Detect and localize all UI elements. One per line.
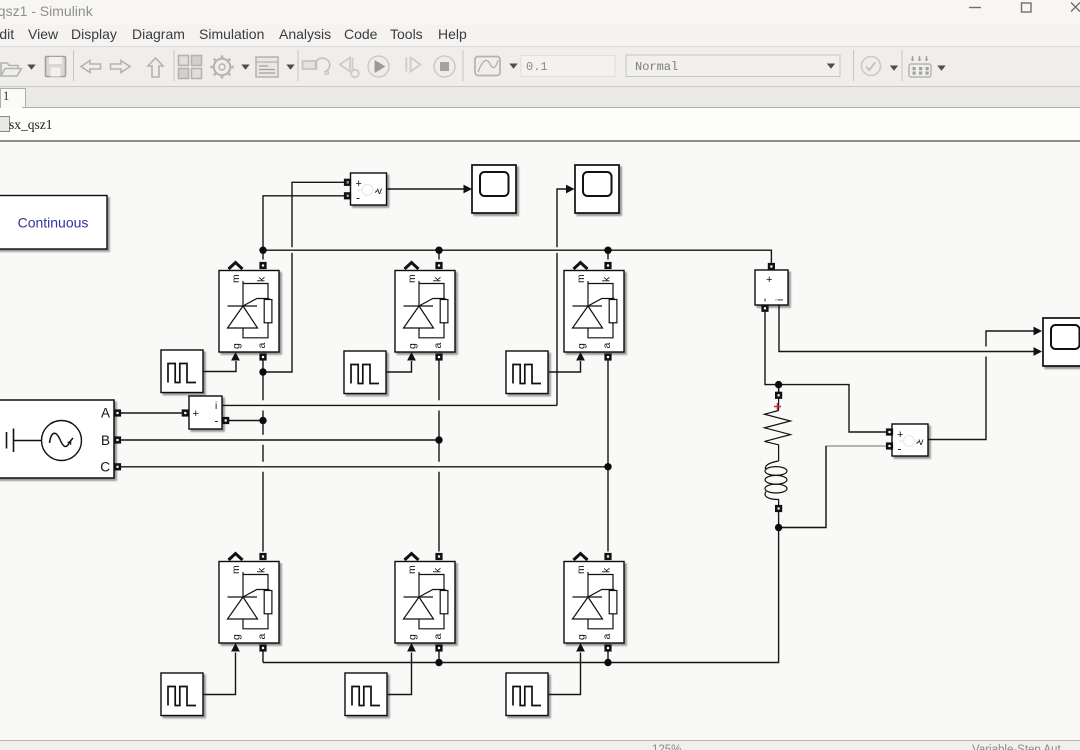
thyristor T1	[219, 262, 279, 361]
wire: phase C	[121, 466, 608, 468]
junction node DC+ bus / leg3 k	[604, 247, 611, 254]
wire: P3 to T3 gate	[549, 361, 581, 372]
wire: leg 1 (phase A to thyristors)	[262, 254, 264, 260]
wire: Vak measurement + lead	[267, 182, 348, 372]
junction node phase A / leg1	[259, 417, 266, 424]
title bar	[0, 0, 1080, 25]
series RLC branch (R + L load)	[765, 388, 791, 505]
junction node load top	[775, 381, 782, 388]
wire: phase A source to current measurement	[121, 412, 182, 414]
svg-text:-: -	[757, 298, 771, 302]
pulse generator P3	[506, 351, 548, 394]
svg-text:A: A	[101, 406, 110, 421]
wire: phase A current signal to scope	[222, 404, 557, 406]
window controls	[955, 0, 1080, 25]
wire: P4 to T4 gate	[203, 653, 236, 695]
wire: current measurement - to leg 1	[229, 420, 263, 422]
wire: Vak measurement - lead to top bus	[263, 196, 348, 250]
thyristor T4	[219, 553, 279, 652]
svg-text:+: +	[193, 408, 199, 420]
voltage measurement block Vd	[886, 424, 928, 456]
wire: P6 to T6 gate	[548, 653, 581, 695]
wire: Vd - to RLC bottom node	[782, 446, 886, 528]
thyristor T3	[564, 262, 624, 361]
wire: P2 to T2 gate	[386, 361, 412, 372]
wire: phase B	[121, 439, 439, 441]
current measurement block (phase A)	[182, 396, 230, 429]
pulse generator P5	[345, 673, 387, 716]
powergui block (Continuous)	[0, 196, 107, 250]
toolbar	[0, 46, 1080, 87]
wire: Vd output to scope	[929, 331, 1034, 440]
current measurement block Id (rotated 90)	[755, 263, 788, 312]
three-phase programmable voltage source	[0, 400, 121, 478]
tab bar	[0, 87, 1080, 108]
voltage measurement block (thyristor Vak)	[344, 173, 387, 205]
svg-text:C: C	[100, 460, 110, 475]
wire: leg 3	[607, 254, 609, 260]
scope block (Vd and Id), clipped at right edge	[1043, 318, 1080, 366]
scope block (Vak)	[472, 165, 516, 213]
junction node phase C / leg3	[604, 463, 611, 470]
junction node DC+ bus / leg1 k	[259, 247, 266, 254]
svg-text:i: i	[775, 299, 786, 301]
wire: Vak measurement output to scope	[387, 188, 465, 190]
thyristor T5	[395, 553, 455, 652]
junction node DC+ bus / leg2 k	[435, 247, 442, 254]
wire: load node to Vd +	[779, 385, 886, 432]
svg-text:Normal: Normal	[635, 60, 678, 74]
pulse generator P6	[506, 673, 548, 716]
junction node DC- bus / leg2 a	[435, 659, 442, 666]
red polarity mark on RLC branch	[774, 403, 781, 410]
thyristor T6	[564, 553, 624, 652]
wire: Id signal to scope	[779, 305, 1034, 352]
wire: P5 to T5 gate	[388, 653, 412, 695]
svg-text:Continuous: Continuous	[18, 215, 89, 231]
junction node leg1 anode / Vak+ tap	[259, 368, 266, 375]
svg-text:i: i	[215, 401, 217, 412]
pulse generator P4	[161, 673, 203, 716]
status bar	[0, 740, 1080, 750]
pulse generator P1	[161, 350, 203, 393]
breadcrumb	[0, 108, 1080, 142]
scope block (phase A current)	[575, 165, 619, 213]
junction node phase B / leg2	[435, 436, 442, 443]
thyristor T2	[395, 262, 455, 361]
svg-text:-: -	[215, 414, 219, 428]
wire: RLC bottom to node	[778, 512, 780, 528]
wire: top DC bus	[263, 250, 771, 263]
wire: bottom DC bus	[263, 531, 779, 663]
wire: current measurement - to load node	[765, 312, 775, 385]
svg-text:B: B	[101, 433, 110, 448]
wire: P1 to T1 gate	[203, 361, 236, 372]
svg-text:0.1: 0.1	[526, 60, 548, 74]
junction node load bottom	[775, 524, 782, 531]
junction node DC- bus / leg3 a	[604, 659, 611, 666]
wire: load node down to RLC	[778, 385, 780, 392]
wire: bottom legs to bus	[262, 651, 264, 662]
pulse generator P2	[344, 351, 386, 394]
wire: leg 2	[438, 254, 440, 260]
menu bar	[0, 25, 1080, 46]
svg-text:+: +	[766, 274, 772, 286]
